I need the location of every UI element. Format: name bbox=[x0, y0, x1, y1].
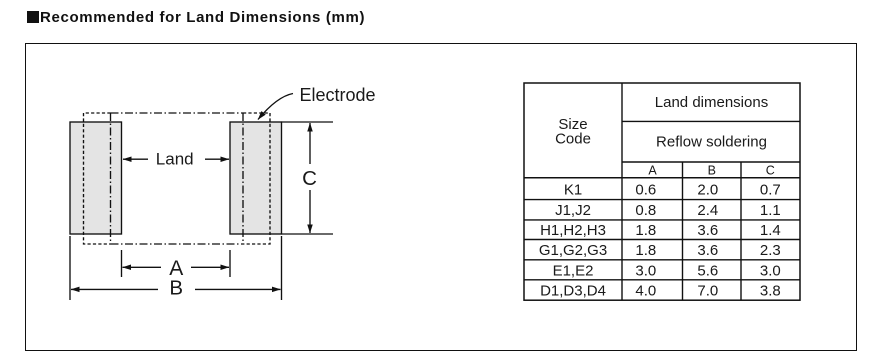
svg-text:0.7: 0.7 bbox=[760, 181, 781, 198]
svg-text:0.6: 0.6 bbox=[635, 181, 656, 198]
table vertical grid bbox=[621, 83, 623, 300]
svg-text:3.6: 3.6 bbox=[697, 222, 718, 239]
svg-text:Land dimensions: Land dimensions bbox=[655, 94, 768, 111]
svg-text:K1: K1 bbox=[564, 181, 582, 198]
land callout arrows bbox=[123, 158, 148, 160]
land pad left bbox=[70, 122, 122, 234]
svg-text:C: C bbox=[766, 163, 775, 177]
title: Recommended for Land Dimensions (mm) bbox=[27, 9, 365, 26]
dimension C arrows bbox=[309, 123, 311, 164]
svg-text:E1,E2: E1,E2 bbox=[553, 262, 594, 279]
svg-text:A: A bbox=[648, 163, 657, 177]
table outer border bbox=[524, 83, 800, 300]
svg-text:3.0: 3.0 bbox=[760, 262, 781, 279]
svg-text:4.0: 4.0 bbox=[635, 282, 656, 299]
svg-text:5.6: 5.6 bbox=[697, 262, 718, 279]
svg-text:7.0: 7.0 bbox=[697, 282, 718, 299]
dimension B extension lines bbox=[69, 236, 71, 300]
svg-text:3.6: 3.6 bbox=[697, 242, 718, 259]
dimension C extension lines bbox=[282, 121, 334, 123]
svg-text:H1,H2,H3: H1,H2,H3 bbox=[540, 222, 606, 239]
electrode callout arrow bbox=[258, 94, 293, 120]
electrode cap outline left (dashed) bbox=[84, 113, 111, 244]
svg-text:G1,G2,G3: G1,G2,G3 bbox=[539, 242, 607, 259]
dimension A extension lines bbox=[121, 250, 123, 277]
svg-text:Reflow soldering: Reflow soldering bbox=[656, 134, 767, 151]
svg-text:1.8: 1.8 bbox=[635, 242, 656, 259]
svg-text:J1,J2: J1,J2 bbox=[555, 202, 591, 219]
table horizontal grid bbox=[622, 120, 800, 122]
svg-text:Code: Code bbox=[555, 131, 591, 148]
svg-text:D1,D3,D4: D1,D3,D4 bbox=[540, 282, 606, 299]
svg-text:2.3: 2.3 bbox=[760, 242, 781, 259]
land pad right bbox=[230, 122, 282, 234]
electrode body edges (dash-dot) bbox=[111, 113, 244, 244]
svg-text:1.4: 1.4 bbox=[760, 222, 781, 239]
svg-text:3.0: 3.0 bbox=[635, 262, 656, 279]
svg-text:0.8: 0.8 bbox=[635, 202, 656, 219]
dimension A arrows bbox=[123, 266, 162, 268]
electrode cap outline right (dashed) bbox=[243, 113, 270, 244]
svg-text:1.8: 1.8 bbox=[635, 222, 656, 239]
dimension B arrows bbox=[71, 288, 158, 290]
svg-text:2.0: 2.0 bbox=[697, 181, 718, 198]
svg-text:B: B bbox=[708, 163, 716, 177]
svg-text:2.4: 2.4 bbox=[697, 202, 718, 219]
svg-text:1.1: 1.1 bbox=[760, 202, 781, 219]
svg-text:3.8: 3.8 bbox=[760, 282, 781, 299]
